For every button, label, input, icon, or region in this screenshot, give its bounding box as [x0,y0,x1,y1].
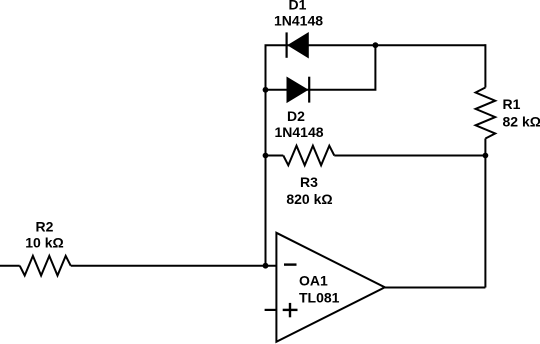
svg-text:10 kΩ: 10 kΩ [25,235,63,251]
svg-text:TL081: TL081 [299,290,340,306]
svg-text:1N4148: 1N4148 [274,124,323,140]
wire right vertical feedback column [484,44,486,87]
svg-text:OA1: OA1 [299,273,328,289]
wire D1 top branch [265,44,486,46]
wire D2 branch with riser to D1 wire [265,45,376,90]
op-amp OA1 [276,233,384,342]
svg-text:R1: R1 [503,96,521,112]
svg-text:82 kΩ: 82 kΩ [503,114,540,130]
svg-text:1N4148: 1N4148 [274,13,323,29]
resistor R2 [20,219,71,276]
node junction D1/D2 right [373,42,379,48]
resistor R3 [283,146,334,207]
op-amp minus marking [284,263,297,265]
svg-text:D1: D1 [289,0,307,13]
node junction D2 left [263,87,269,93]
wire op-amp output to feedback column [385,287,486,289]
wire vertical left branch (inverting node up to diodes) [265,45,267,266]
svg-text:R2: R2 [36,219,54,235]
diode D1 [274,0,323,58]
diode D2 [274,77,323,140]
wire non-inverting input stub [265,309,277,311]
node junction R1 bottom / R3 right [483,153,489,159]
svg-text:820 kΩ: 820 kΩ [286,191,332,207]
svg-text:D2: D2 [287,108,305,124]
node junction R3 left [263,153,269,159]
wire R3 branch [265,155,284,157]
node junction at inverting input [263,263,269,269]
svg-text:R3: R3 [300,174,318,190]
op-amp plus marking [283,303,298,317]
resistor R1 [476,88,540,139]
wire input from left edge to op-amp inverting input [0,265,20,267]
